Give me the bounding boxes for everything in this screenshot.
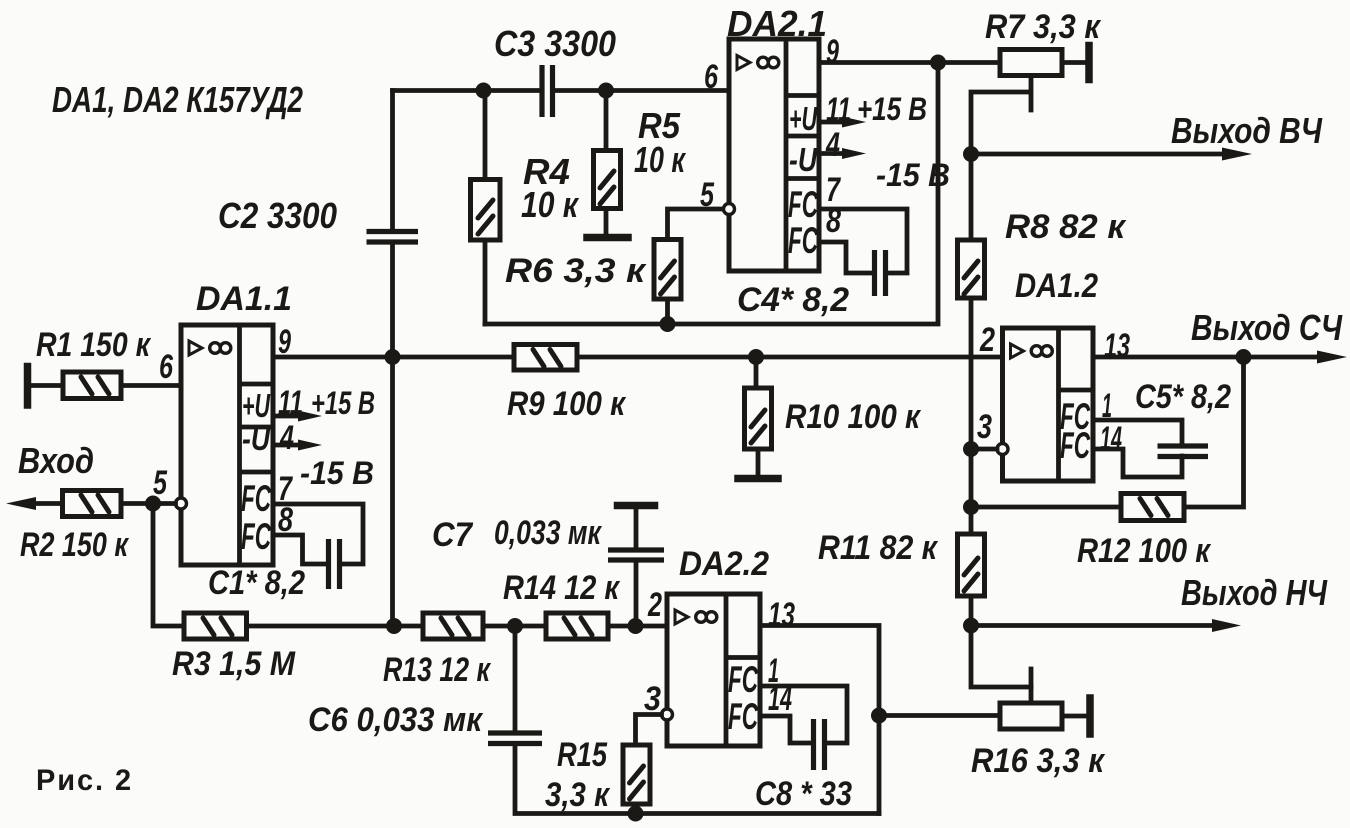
resistor R6	[654, 240, 681, 300]
resistor R3	[184, 613, 247, 639]
inverting input circle DA2.1 pin5	[724, 204, 735, 215]
svg-text:DA1, DA2 К157УД2: DA1, DA2 К157УД2	[52, 79, 303, 120]
output arrow Выход ВЧ	[971, 148, 1252, 161]
wire R5 top lead	[604, 91, 609, 151]
wire R1 left lead	[28, 383, 64, 388]
svg-text:13: 13	[768, 596, 795, 634]
ground terminal below R10	[738, 475, 778, 483]
terminal bar above C7	[618, 502, 655, 510]
svg-text:-15 В: -15 В	[300, 455, 374, 491]
node C8 net R16	[871, 708, 887, 724]
wire DA2.2 pin 13 output down to bottom net	[760, 626, 879, 814]
svg-text:DA2.2: DA2.2	[679, 545, 769, 583]
svg-text:10 к: 10 к	[521, 184, 579, 225]
wire R6 bottom lead	[665, 299, 670, 324]
svg-text:4: 4	[825, 126, 840, 164]
op-amp DA2.1	[729, 39, 819, 271]
ground terminal below R5	[587, 234, 628, 242]
svg-text:Выход ВЧ: Выход ВЧ	[1171, 110, 1323, 151]
wire DA1.2 pin 14 to C5	[1093, 449, 1182, 477]
node R15 bottom	[628, 806, 644, 822]
resistor R7	[1000, 50, 1062, 76]
svg-text:10 к: 10 к	[634, 139, 686, 180]
svg-text:R6 3,3 к: R6 3,3 к	[505, 252, 647, 290]
node bus at R10	[748, 349, 764, 365]
wire C3 right to DA2.1 pin 6	[553, 88, 730, 93]
wire long vertical from top net down to lower path	[390, 91, 395, 627]
op-amp DA2.2	[667, 594, 760, 746]
svg-text:C3 3300: C3 3300	[494, 23, 616, 64]
svg-text:FC: FC	[241, 516, 272, 557]
terminal bar right of R16	[1086, 698, 1094, 734]
svg-text:R13 12 к: R13 12 к	[383, 651, 491, 689]
svg-text:C8 * 33: C8 * 33	[755, 775, 852, 813]
wire DA2.1 pin5 to R6	[668, 209, 724, 240]
capacitor C3	[542, 65, 553, 117]
resistor R16	[1000, 703, 1062, 729]
output arrow Вход	[6, 497, 63, 510]
power arrow +U DA2.1 pin 11	[819, 117, 866, 128]
wire DA2.1 pin 8 to C4	[819, 242, 874, 273]
node Выход СЧ	[1236, 349, 1252, 365]
resistor R15	[623, 745, 650, 804]
node R13 R14 C6	[507, 618, 523, 634]
wire R12 right lead up to bus	[1184, 357, 1244, 507]
svg-text:R15: R15	[557, 736, 608, 774]
wire C6 top lead	[513, 626, 518, 732]
svg-text:R12 100 к: R12 100 к	[1077, 532, 1212, 570]
svg-text:+15 В: +15 В	[857, 91, 927, 127]
resistor R11	[958, 534, 985, 596]
capacitor C5	[1158, 446, 1209, 457]
svg-text:-15 В: -15 В	[876, 157, 950, 193]
power arrow +U DA1.1 pin 11	[273, 411, 322, 422]
wire R16 left lead to C8 net	[879, 713, 1000, 718]
capacitor C6	[488, 733, 542, 744]
resistor R8	[958, 240, 985, 298]
svg-text:FC: FC	[1060, 425, 1091, 466]
wire C6 bottom lead to bottom net	[515, 744, 879, 814]
resistor R5	[594, 151, 621, 209]
resistor R14	[546, 613, 608, 639]
output arrow Выход НЧ	[971, 619, 1241, 632]
svg-text:R16 3,3 к: R16 3,3 к	[971, 742, 1106, 780]
wire R10 bottom lead	[756, 449, 761, 475]
wire НЧ node down to R16 tap	[971, 626, 1031, 688]
svg-text:FC: FC	[728, 659, 759, 700]
wire DA2.1 pin 9 output	[819, 60, 1000, 65]
svg-text:R2 150 к: R2 150 к	[20, 526, 129, 564]
wire DA1.2 pin 1 to C5	[1093, 420, 1182, 446]
node at C3 left	[476, 83, 492, 99]
svg-text:DA2.1: DA2.1	[727, 3, 827, 44]
wire node down to R3 row	[153, 504, 184, 627]
resistor R12	[1121, 494, 1184, 521]
svg-text:R8 82 к: R8 82 к	[1005, 208, 1127, 246]
wire DA2.1 feedback bottom and right side	[485, 63, 938, 325]
wire DA1.2 pin3	[971, 447, 997, 452]
svg-text:6: 6	[704, 58, 719, 96]
svg-text:0,033 мк: 0,033 мк	[494, 514, 602, 552]
wire R8 top lead	[969, 154, 974, 240]
power arrow -U DA1.1 pin 4	[273, 440, 322, 451]
op-amp DA1.2	[1003, 328, 1094, 481]
wire R7 bottom tap	[971, 76, 1031, 155]
svg-text:Выход СЧ: Выход СЧ	[1191, 307, 1343, 348]
svg-text:C7: C7	[432, 516, 474, 554]
svg-text:+U: +U	[242, 387, 271, 424]
output arrow Выход СЧ	[1317, 351, 1347, 364]
wire R1 to DA1.1 pin 6	[121, 383, 181, 388]
wire R2 to DA1.1 pin 5	[121, 501, 176, 506]
wire DA2.1 pin 7 to C4	[819, 209, 907, 273]
svg-text:Выход НЧ: Выход НЧ	[1181, 572, 1328, 613]
inverting input circle DA1.1 pin5	[176, 498, 187, 509]
capacitor C2	[367, 232, 419, 243]
capacitor C1	[329, 539, 340, 589]
wire main bus DA1.1 pin9 to R9	[273, 355, 514, 360]
svg-text:-U: -U	[242, 420, 271, 457]
svg-text:3,3 к: 3,3 к	[545, 776, 611, 814]
wire R4 bottom lead	[483, 240, 488, 324]
node DA2.2 pin2 C7	[628, 618, 644, 634]
capacitor C4	[875, 250, 886, 296]
wire DA2.2 pin 1 to C8	[760, 686, 847, 743]
capacitor C8	[814, 719, 825, 770]
svg-text:2: 2	[979, 321, 995, 359]
node lower path at long vertical	[386, 618, 402, 634]
svg-text:2: 2	[647, 586, 662, 624]
node pin9 R7	[930, 55, 946, 71]
svg-text:R10 100 к: R10 100 к	[785, 398, 922, 436]
wire R16 right lead	[1062, 714, 1086, 719]
resistor R1	[63, 372, 121, 399]
wire R16 top tap stub	[1029, 669, 1034, 703]
wire DA1.1 pin 7 to C1	[273, 504, 363, 564]
wire R3 to R13	[247, 624, 424, 629]
svg-text:C2 3300: C2 3300	[218, 195, 337, 236]
svg-text:DA1.2: DA1.2	[1015, 267, 1098, 305]
svg-text:+U: +U	[789, 100, 818, 137]
wire DA2.2 pin3 to R15	[636, 715, 662, 746]
wire R11 bottom lead	[969, 596, 974, 626]
node at C3 right	[598, 83, 614, 99]
svg-text:DA1.1: DA1.1	[196, 280, 292, 318]
wire DA1.1 pin 8 to C1	[273, 535, 328, 564]
wire R13 to R14	[483, 624, 546, 629]
wire R5 bottom lead	[604, 209, 609, 235]
wire main bus DA1.2 pin13 to output	[1093, 355, 1330, 360]
svg-text:FC: FC	[241, 478, 272, 519]
svg-text:FC: FC	[788, 184, 819, 225]
svg-text:C1* 8,2: C1* 8,2	[208, 564, 305, 602]
svg-text:3: 3	[977, 408, 992, 446]
svg-text:FC: FC	[788, 220, 819, 261]
svg-text:C4* 8,2: C4* 8,2	[737, 281, 849, 319]
resistor R4	[471, 180, 501, 241]
wire top net from C2 vertical to C3	[393, 88, 543, 93]
inverting input circle DA1.2 pin3	[997, 444, 1008, 455]
node pin3 DA1.2	[963, 441, 979, 457]
svg-text:+15 В: +15 В	[311, 385, 375, 421]
resistor R10	[745, 388, 772, 449]
node bus at long vertical	[385, 349, 401, 365]
svg-text:Рис. 2: Рис. 2	[36, 764, 133, 797]
node Выход НЧ	[963, 618, 979, 634]
capacitor C7	[608, 550, 664, 560]
svg-text:R9 100 к: R9 100 к	[507, 385, 627, 423]
node R12 left	[963, 499, 979, 515]
power arrow -U DA2.1 pin 4	[819, 148, 866, 159]
terminal bar right of R7	[1085, 46, 1093, 80]
node R6 on feedback wire	[660, 316, 676, 332]
resistor R9	[514, 345, 577, 371]
terminal bar left of R1	[24, 367, 32, 406]
wire main bus R9 to DA1.2 pin 2	[577, 355, 1003, 360]
svg-text:Вход: Вход	[18, 440, 94, 481]
svg-text:R3 1,5 М: R3 1,5 М	[172, 645, 296, 683]
resistor R13	[423, 613, 483, 639]
svg-text:C5* 8,2: C5* 8,2	[1135, 378, 1231, 416]
inverting input circle DA2.2 pin3	[662, 709, 673, 720]
svg-text:-U: -U	[789, 141, 818, 178]
wire R14 to DA2.2 pin 2	[608, 624, 667, 629]
svg-text:9: 9	[826, 33, 839, 71]
wire R4 top lead	[483, 91, 488, 180]
op-amp DA1.1	[181, 325, 273, 565]
wire R10 top lead	[754, 357, 759, 388]
svg-text:4: 4	[279, 419, 294, 457]
svg-text:FC: FC	[728, 696, 759, 737]
svg-text:R14 12 к: R14 12 к	[503, 569, 620, 607]
svg-text:5: 5	[700, 176, 715, 214]
svg-text:R7 3,3 к: R7 3,3 к	[985, 8, 1102, 46]
wire R8 bottom to DA1.2 input column	[969, 298, 974, 534]
node Выход ВЧ	[963, 146, 979, 162]
wire R7 right lead	[1062, 60, 1085, 65]
wire R12 left lead	[971, 505, 1121, 510]
svg-text:R11 82 к: R11 82 к	[818, 529, 939, 567]
svg-text:6: 6	[159, 348, 174, 386]
svg-text:14: 14	[1100, 420, 1122, 458]
svg-text:C6 0,033 мк: C6 0,033 мк	[308, 701, 484, 739]
svg-text:R1 150 к: R1 150 к	[36, 326, 151, 364]
wire R15 bottom lead	[634, 804, 639, 814]
wire C7 top lead	[634, 506, 639, 550]
node R2 pin5	[145, 496, 161, 512]
wire C7 bottom lead	[634, 560, 639, 626]
resistor R2	[63, 491, 122, 517]
wire DA2.2 pin 14 to C8	[760, 716, 813, 743]
